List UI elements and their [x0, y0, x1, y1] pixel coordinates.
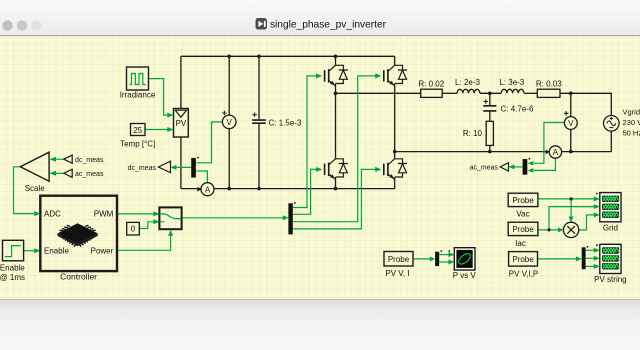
wire Temp to PV	[145, 129, 168, 131]
window button 1	[2, 20, 12, 30]
arrow into switch in2	[153, 219, 159, 224]
junction Iac probe branch	[547, 228, 550, 231]
wire C1 top stem	[258, 56, 260, 120]
junction top bus / Vdc	[227, 55, 231, 59]
demux PV V,I	[435, 252, 439, 266]
arrow into switch control	[168, 230, 173, 236]
probe Vac	[508, 193, 538, 218]
arrow into ADC	[34, 211, 40, 216]
svg-text:L: 2e-3: L: 2e-3	[455, 78, 480, 87]
probe Iac	[508, 222, 538, 248]
wire switch to PWM demux	[182, 217, 284, 219]
wire Aac meter to ac mux	[534, 158, 555, 170]
goto tag dc_meas	[128, 161, 171, 173]
arrow into scope Grid in2	[594, 204, 600, 209]
signal mux ac	[523, 159, 528, 175]
wire R2 to Vgrid top	[560, 93, 611, 116]
wire Vdc meter to dc mux	[197, 122, 222, 163]
arrow gate S1	[316, 73, 322, 78]
svg-text:Temp [°C]: Temp [°C]	[120, 139, 155, 148]
IGBT S4 (bottom right)	[384, 159, 407, 180]
wire dc mux to dc_meas goto	[172, 166, 191, 168]
wire const 0 to switch	[139, 222, 154, 229]
wire shunt cap to R3	[489, 111, 491, 121]
constant block Temp 25	[120, 124, 155, 149]
wire Probe PV V,I to demux	[413, 258, 431, 260]
svg-text:Power: Power	[91, 247, 114, 256]
wire left leg top stem	[335, 56, 337, 65]
wire Probe Vac to scope Grid	[538, 198, 595, 200]
demux PV string	[582, 247, 586, 269]
wire Vdc top stem	[228, 56, 230, 115]
wire Scale to ADC	[14, 167, 35, 214]
window button 2	[17, 20, 27, 30]
svg-text:C: 4.7e-6: C: 4.7e-6	[501, 105, 534, 114]
svg-text:V: V	[227, 118, 233, 127]
wire Vac meter to ac mux	[534, 123, 564, 164]
wire multiplier to scope Grid	[579, 215, 595, 230]
wire right leg bottom stem	[394, 179, 396, 188]
svg-text:230 V: 230 V	[623, 118, 640, 127]
wire demux to XY scope in2	[439, 261, 449, 263]
junction bottom bus / C1	[257, 187, 261, 191]
junction L1 / shunt	[488, 92, 492, 96]
junction Vac meter bottom	[569, 150, 573, 154]
arrow into Scale in2	[49, 171, 56, 176]
arrow into XY scope in1	[448, 252, 454, 257]
XY scope P vs V	[453, 248, 477, 281]
from tag dc_meas	[64, 155, 104, 164]
from tag ac_meas	[64, 169, 104, 178]
arrow into scope Grid in3	[594, 212, 600, 217]
wire shunt branch top	[489, 93, 491, 105]
wire PV bottom stem	[180, 137, 182, 189]
wire L1 to L2	[480, 92, 501, 94]
goto tag ac_meas	[470, 163, 509, 172]
voltage source Vgrid	[604, 108, 640, 138]
schematic canvas background	[0, 36, 640, 299]
svg-text:Vac: Vac	[516, 210, 529, 219]
subsystem Controller	[40, 196, 117, 282]
arrow gate S2	[316, 167, 322, 172]
wire Vdc bottom stem	[228, 129, 230, 189]
arrow into dc mux in2	[191, 169, 196, 174]
signal switch	[159, 207, 181, 229]
svg-text:V: V	[568, 119, 574, 128]
svg-text:ac_meas: ac_meas	[75, 171, 104, 178]
junction bottom bus / Vdc	[227, 187, 231, 191]
svg-text:@ 1ms: @ 1ms	[0, 273, 25, 282]
probe PV V,I	[384, 252, 413, 279]
capacitor C1 1.5e-3	[252, 113, 302, 128]
capacitor C: 4.7e-6	[483, 99, 534, 113]
arrow into PWM demux	[283, 215, 289, 220]
svg-text:dc_meas: dc_meas	[128, 165, 157, 172]
wire pv demux to scope in2	[586, 257, 595, 259]
arrow into switch in1	[153, 211, 159, 216]
svg-text:PV V,I,P: PV V,I,P	[509, 269, 539, 278]
wire demux to XY scope in1	[439, 254, 449, 256]
junction top bus / C1	[257, 55, 261, 59]
ammeter A2 (ac)	[546, 146, 562, 158]
svg-text:R: 0.03: R: 0.03	[536, 80, 562, 89]
svg-text:Probe: Probe	[512, 255, 534, 264]
svg-text:dc_meas: dc_meas	[75, 157, 104, 164]
svg-text:Iac: Iac	[515, 239, 526, 248]
scope Grid	[596, 193, 621, 233]
step source Enable	[0, 240, 25, 281]
demux PWM	[288, 203, 292, 234]
junction Vac meter top	[569, 92, 573, 96]
inductor L: 3e-3	[499, 78, 524, 94]
wire Vac branch to multiplier	[570, 199, 572, 217]
svg-text:25: 25	[133, 126, 142, 135]
arrow into XY scope in2	[448, 260, 454, 265]
wire dc_meas from-tag to Scale	[51, 158, 64, 160]
svg-text:Scale: Scale	[25, 184, 46, 193]
signal mux dc	[191, 158, 196, 178]
junction Vac probe branch	[570, 197, 573, 200]
svg-text:Controller: Controller	[60, 271, 97, 281]
arrow into ac_meas goto	[509, 164, 515, 169]
wire Iac branch to scope Grid	[549, 207, 595, 230]
wire Power to switch control	[117, 236, 171, 250]
wire Probe Iac to multiplier	[538, 229, 559, 231]
wire Vac meter bottom stem	[570, 129, 572, 151]
wire ac_meas from-tag to Scale	[51, 172, 64, 174]
arrow into dc mux in1	[191, 161, 196, 166]
wire L2 to R2	[524, 92, 537, 94]
arrow into scope PV string in1	[594, 248, 600, 253]
multiplier	[563, 222, 578, 237]
window button 3	[31, 20, 41, 30]
junction left leg midpoint	[334, 92, 338, 96]
chip icon inside Controller	[58, 223, 98, 246]
constant block 0	[127, 222, 140, 235]
svg-text:PV V, I: PV V, I	[385, 269, 409, 278]
wire Vac meter top stem	[570, 93, 572, 117]
svg-text:PV: PV	[176, 119, 187, 128]
inductor L: 2e-3	[455, 78, 480, 94]
arrow into PV irradiance input	[167, 113, 173, 118]
wire Vgrid bottom stem	[610, 131, 612, 152]
gain block Scale	[20, 152, 49, 193]
svg-text:single_phase_pv_inverter: single_phase_pv_inverter	[270, 19, 387, 30]
svg-text:PV string: PV string	[594, 275, 626, 284]
wire AC return rail	[395, 151, 612, 153]
wire PWM to switch	[117, 213, 154, 215]
svg-text:ADC: ADC	[44, 210, 61, 219]
voltmeter V2 (ac)	[564, 111, 577, 129]
wire gate signal S1	[293, 76, 317, 208]
svg-text:50 Hz: 50 Hz	[623, 129, 640, 138]
wire Irradiance to PV	[149, 79, 168, 116]
wire Probe PV V,I,P to demux	[538, 258, 577, 260]
svg-text:Probe: Probe	[388, 255, 410, 264]
wire left leg middle stem	[335, 86, 337, 159]
svg-text:R: 10: R: 10	[463, 129, 483, 138]
wire gate signal S2	[293, 169, 317, 214]
arrow into Enable port	[34, 248, 40, 253]
svg-text:Vgrid: Vgrid	[623, 108, 640, 117]
junction right leg midpoint	[393, 150, 397, 154]
wire R1 to L1	[442, 92, 457, 94]
wire ac mux to ac_meas goto	[510, 166, 523, 168]
svg-text:0: 0	[131, 225, 136, 234]
wire pv demux to scope in3	[586, 265, 595, 267]
arrow into scope Grid in1	[594, 196, 600, 201]
arrow into scope PV string in2	[594, 256, 600, 261]
svg-text:A: A	[205, 185, 211, 194]
svg-text:ac_meas: ac_meas	[470, 165, 499, 172]
arrow gate S4	[375, 167, 381, 172]
svg-text:PWM: PWM	[94, 210, 114, 219]
IGBT S3 (top right)	[384, 65, 407, 86]
svg-text:Probe: Probe	[512, 196, 534, 205]
resistor R: 10	[463, 121, 494, 145]
arrow into Scale in1	[49, 157, 56, 162]
svg-text:Enable: Enable	[44, 247, 69, 256]
arrow into multiplier left	[558, 227, 564, 232]
svg-text:Enable: Enable	[0, 263, 25, 272]
wire left leg bottom stem	[335, 179, 337, 188]
svg-text:C: 1.5e-3: C: 1.5e-3	[269, 118, 302, 127]
arrow into scope PV string in3	[594, 264, 600, 269]
svg-text:R: 0.02: R: 0.02	[418, 80, 444, 89]
arrow into dc_meas goto	[171, 165, 177, 170]
wire PV top stem	[180, 56, 182, 108]
PV panel block	[174, 109, 189, 138]
IGBT S2 (bottom left)	[325, 159, 348, 180]
junction shunt bottom	[488, 150, 492, 154]
svg-text:P vs V: P vs V	[453, 271, 477, 280]
scope PV string	[594, 244, 626, 284]
junction bottom bus / left leg	[334, 187, 338, 191]
resistor R: 0.03	[536, 80, 562, 98]
arrow into pv demux	[576, 256, 582, 261]
wire R3 bottom stem	[489, 145, 491, 151]
svg-text:L: 3e-3: L: 3e-3	[499, 78, 524, 87]
wire C1 bottom stem	[258, 123, 260, 188]
ammeter A1 (dc)	[197, 183, 214, 196]
pulse source Irradiance	[120, 67, 156, 100]
window icon	[256, 18, 268, 30]
svg-text:Probe: Probe	[512, 225, 534, 234]
wire pv demux to scope in1	[586, 249, 595, 251]
wire gate signal S3	[293, 76, 376, 222]
wire gate signal S4	[293, 169, 376, 229]
probe PV V,I,P	[509, 252, 539, 279]
wire AC rail left	[336, 92, 421, 94]
svg-text:Grid: Grid	[603, 223, 618, 232]
wire Adc meter to dc mux	[197, 171, 207, 183]
wire top DC bus	[181, 55, 395, 57]
svg-text:Irradiance: Irradiance	[120, 91, 156, 100]
wire right leg middle stem	[394, 86, 396, 159]
wire right leg top stem	[394, 56, 396, 65]
wire bottom DC bus	[181, 188, 395, 190]
arrow into ac mux in1	[528, 161, 534, 166]
IGBT S1 (top left)	[325, 65, 348, 86]
arrow into multiplier top	[569, 217, 574, 223]
arrow gate S3	[375, 73, 381, 78]
svg-text:A: A	[553, 148, 559, 157]
resistor R: 0.02	[418, 80, 444, 98]
junction top bus / left leg	[334, 55, 338, 59]
wire Enable to controller	[24, 250, 35, 252]
voltmeter V1 (dc)	[222, 111, 236, 129]
arrow into xy demux	[430, 256, 435, 261]
arrow into ac mux in2	[528, 168, 534, 173]
arrow into PV temp input	[167, 127, 173, 132]
